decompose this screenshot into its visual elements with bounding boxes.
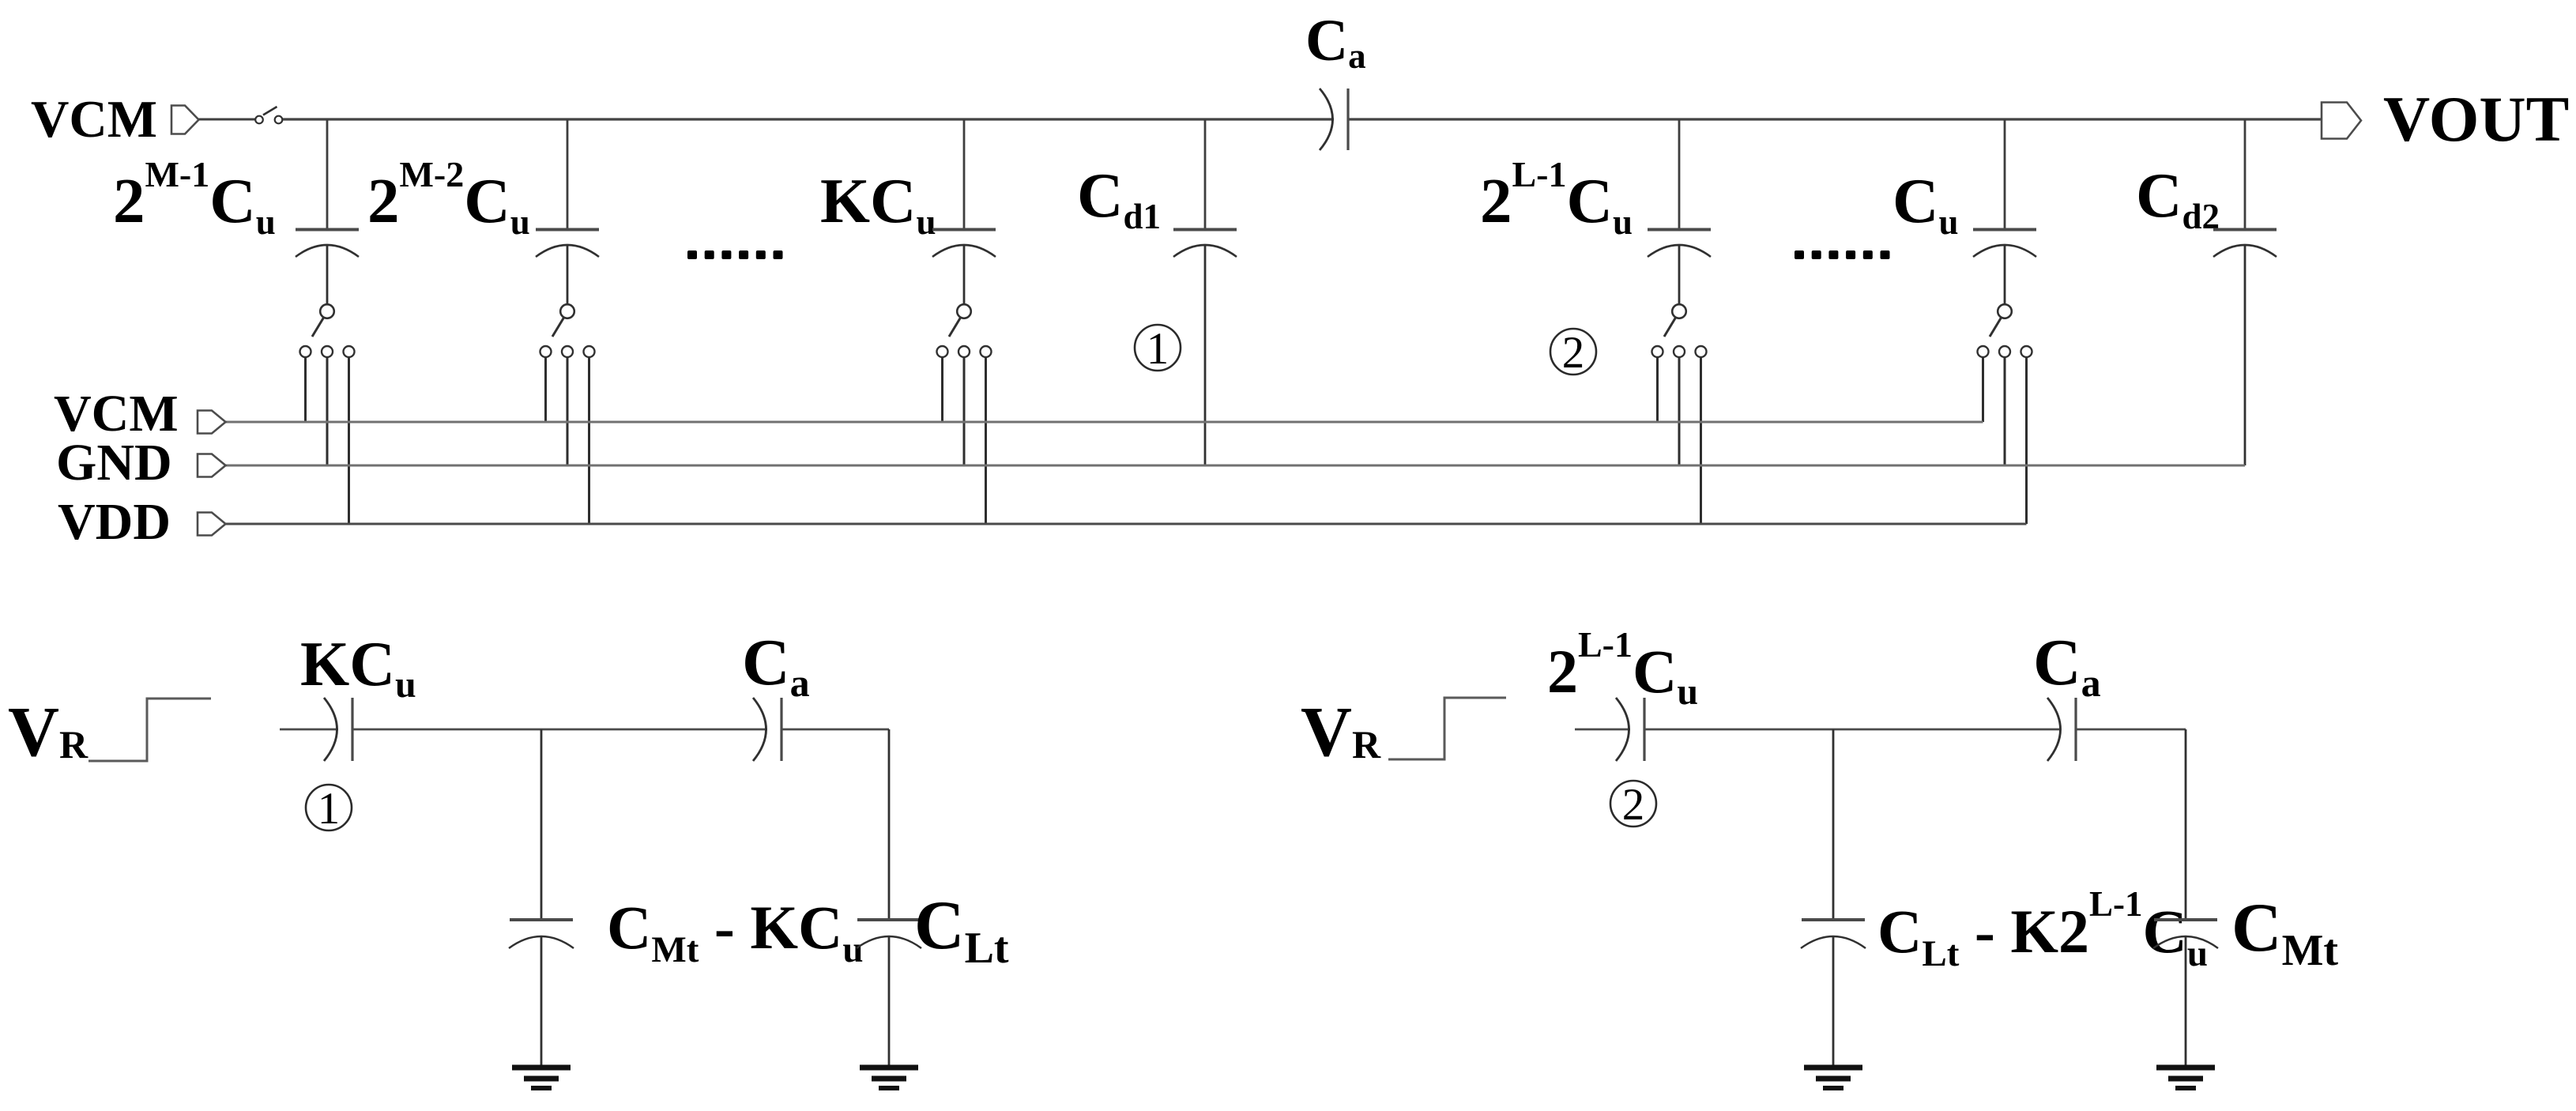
wire node down to CMt-KCu xyxy=(540,729,543,920)
wire 2^L-1 Cu to Ca (bottom right) xyxy=(1644,729,2059,731)
step waveform symbol (bottom left VR) xyxy=(89,699,211,761)
step waveform symbol (bottom right VR) xyxy=(1388,698,1506,759)
capacitor 2^M-2 Cu xyxy=(536,119,599,257)
capacitor Cd1 xyxy=(1173,119,1237,257)
wire Cd2 bottom to GND rail xyxy=(2244,245,2246,465)
capacitor CLt-K2^L-1Cu (shunt) xyxy=(1801,920,1866,1068)
input port VCM (top left) xyxy=(171,106,199,134)
wire top bus (switch to Ca) xyxy=(283,118,1334,120)
node label 1 (top, circled) xyxy=(1135,325,1181,371)
svg-text:2: 2 xyxy=(1622,780,1645,830)
svg-text:1: 1 xyxy=(318,784,341,834)
wire top bus (Ca to VOUT) xyxy=(1347,118,2322,120)
switch SW4 (for 2^L-1 Cu) xyxy=(1652,245,1707,524)
wire VDD rail xyxy=(226,523,2027,525)
svg-text:CLt: CLt xyxy=(914,887,1009,973)
capacitor 2^L-1 Cu xyxy=(1648,119,1711,257)
svg-text:Cd1: Cd1 xyxy=(1077,160,1161,236)
ellipsis dots (MSB array) xyxy=(687,250,783,259)
capacitor CMt-KCu (shunt) xyxy=(509,920,574,1068)
svg-text:CMt: CMt xyxy=(2231,890,2338,975)
svg-text:VR: VR xyxy=(1301,693,1381,771)
svg-text:1: 1 xyxy=(1147,324,1169,374)
input port VCM (rail) xyxy=(198,411,226,434)
node label 2 (bottom right, circled) xyxy=(1610,781,1656,827)
capacitor Ca (series, bottom right) xyxy=(2047,698,2076,761)
svg-text:2L-1Cu: 2L-1Cu xyxy=(1547,624,1698,713)
capacitor Ca (series, bottom left) xyxy=(753,698,781,761)
input port VDD (rail) xyxy=(198,513,226,536)
capacitor KCu (series, bottom left) xyxy=(324,698,352,761)
svg-text:Cu: Cu xyxy=(1892,165,1959,242)
capacitor CMt (shunt) xyxy=(2153,920,2218,1068)
capacitor Ca (series, top bus) xyxy=(1320,89,1348,150)
switch SW5 (for Cu) xyxy=(1978,245,2032,524)
ground (below CMt-KCu) xyxy=(512,1068,571,1088)
wire KCu to Ca (bottom left) xyxy=(352,729,767,731)
capacitor Cu xyxy=(1973,119,2036,257)
svg-text:2: 2 xyxy=(1562,328,1585,378)
switch SW1 (for 2^M-1 Cu) xyxy=(300,245,355,524)
wire Cd1 bottom to GND rail xyxy=(1204,245,1207,465)
svg-text:Ca: Ca xyxy=(2033,626,2101,705)
wire VR to KCu (bottom left) xyxy=(280,729,338,731)
svg-text:2M-1Cu: 2M-1Cu xyxy=(113,154,276,242)
wire VCM rail xyxy=(226,421,1983,424)
wire GND rail xyxy=(226,465,2246,467)
wire Ca to corner (bottom left) xyxy=(781,729,889,731)
switch SW2 (for 2^M-2 Cu) xyxy=(540,245,595,524)
ground (below CMt) xyxy=(2156,1068,2215,1088)
switch S0 (sampling switch on top bus) xyxy=(255,107,282,123)
capacitor 2^M-1 Cu xyxy=(296,119,359,257)
switch SW3 (for KCu) xyxy=(937,245,992,524)
wire node down to CLt-K2^L-1Cu xyxy=(1832,729,1835,920)
wire corner down to CLt xyxy=(888,729,891,920)
svg-text:VCM: VCM xyxy=(31,90,157,149)
wire VR to 2^L-1 Cu (bottom right) xyxy=(1575,729,1630,731)
output port VOUT xyxy=(2322,103,2361,139)
svg-text:2M-2Cu: 2M-2Cu xyxy=(367,154,530,242)
svg-text:GND: GND xyxy=(56,434,172,491)
svg-text:Ca: Ca xyxy=(1305,8,1366,76)
input port GND (rail) xyxy=(198,454,226,477)
svg-text:CMt - KCu: CMt - KCu xyxy=(607,893,863,970)
svg-text:VDD: VDD xyxy=(58,493,171,551)
ground (below CLt-K2^L-1Cu) xyxy=(1804,1068,1862,1088)
svg-text:VR: VR xyxy=(8,693,89,771)
svg-text:Cd2: Cd2 xyxy=(2136,160,2220,236)
capacitor CLt (shunt) xyxy=(857,920,921,1068)
wire VCM port to switch S0 xyxy=(199,119,255,121)
svg-text:VOUT: VOUT xyxy=(2383,83,2569,155)
capacitor KCu xyxy=(932,119,996,257)
svg-text:CLt - K2L-1Cu: CLt - K2L-1Cu xyxy=(1877,884,2208,974)
ground (below CLt) xyxy=(860,1068,918,1088)
capacitor Cd2 xyxy=(2213,119,2277,257)
svg-text:KCu: KCu xyxy=(820,165,936,242)
ellipsis dots (LSB array) xyxy=(1795,250,1890,259)
svg-text:KCu: KCu xyxy=(300,630,416,706)
svg-text:Ca: Ca xyxy=(742,626,810,705)
svg-text:2L-1Cu: 2L-1Cu xyxy=(1480,154,1633,242)
node label 2 (top, circled) xyxy=(1550,329,1596,375)
capacitor 2^L-1 Cu (series, bottom right) xyxy=(1616,698,1644,761)
node label 1 (bottom left, circled) xyxy=(306,785,352,830)
wire Ca to corner (bottom right) xyxy=(2076,729,2186,731)
wire corner down to CMt xyxy=(2185,729,2187,920)
